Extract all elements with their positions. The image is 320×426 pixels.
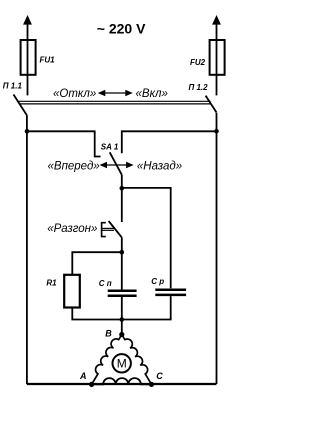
wire to Cp branch [122,188,171,288]
wire Cr bottom lead [122,296,171,319]
motor terminal A [89,382,94,387]
fuse FU2 [210,40,225,95]
capacitor Cn (start) [108,291,137,296]
wire SA1 pivot down to node [121,175,123,188]
node top of R1/Cp [120,250,125,255]
svg-text:С р: С р [151,277,164,286]
svg-text:«Разгон»: «Разгон» [47,223,97,235]
motor circle [113,354,131,372]
motor winding B-C [122,335,152,385]
wire to R1 top [72,252,122,275]
arrow to supply L1 [23,15,32,40]
wire right rail [216,113,218,384]
resistor R1 [64,275,80,308]
wire Cn bottom lead [121,297,123,320]
wire Cp(start) top lead [121,252,123,289]
svg-text:FU2: FU2 [190,58,206,67]
wire B lead [121,320,123,335]
fuse FU1 [21,40,36,95]
svg-text:SA 1: SA 1 [101,142,119,151]
svg-text:П 1.2: П 1.2 [189,83,209,92]
svg-text:В: В [105,328,112,338]
motor winding B-A [92,335,122,385]
node SA1 output [120,186,125,191]
svg-text:«Назад»: «Назад» [137,161,182,173]
svg-text:C: C [156,371,163,381]
mechanical link of P1.1/P1.2 [18,101,212,104]
motor M1 terminal B [119,332,124,337]
svg-text:П 1.1: П 1.1 [3,82,23,91]
arrow to supply L2 [212,15,221,40]
switch P1.1 blade [14,95,27,116]
svg-text:«Вкл»: «Вкл» [136,88,168,100]
switch P1.2 blade [206,96,217,113]
switch SA1 blade [110,152,122,175]
wire Razgon to node [121,237,123,252]
wire node to Razgon contact [121,188,123,222]
svg-text:R1: R1 [46,279,57,288]
svg-text:~ 220 V: ~ 220 V [97,20,146,36]
svg-text:A: A [79,371,87,381]
svg-text:С п: С п [99,279,112,288]
wire R1 bottom [72,308,122,320]
svg-text:«Откл»: «Откл» [53,88,96,100]
node B junction [120,317,125,322]
node junction left [25,129,30,134]
motor terminal C [149,382,154,387]
wire to SA1 left contact [27,131,101,156]
arrow Vpered-Nazad [100,162,134,169]
node junction right [214,129,219,134]
pushbutton Razgon blade [109,221,122,237]
arrow Otkl-Vkl [98,90,133,97]
wire bottom rail [27,383,217,385]
wire left rail [26,115,28,384]
capacitor Cr (run) [155,290,186,295]
svg-text:FU1: FU1 [40,56,56,65]
pushbutton Razgon actuator [102,223,114,237]
svg-text:«Вперед»: «Вперед» [48,161,100,173]
svg-text:M: M [117,356,127,370]
motor winding A-C [92,378,152,384]
wire to SA1 right contact [122,131,217,153]
